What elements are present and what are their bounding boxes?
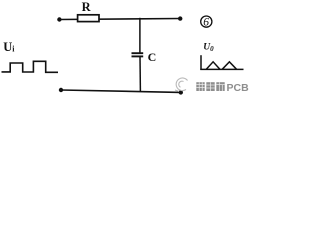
- input square waveform Ui: [2, 61, 59, 72]
- node bottom right terminal dot: [179, 90, 183, 94]
- wire bottom rail: [61, 90, 181, 92]
- circled 6 annotation: [201, 16, 212, 27]
- svg-text:R: R: [82, 0, 92, 14]
- wire capacitor bottom lead: [139, 56, 141, 91]
- capacitor C bottom plate: [132, 55, 144, 57]
- node input terminal dot (top left): [57, 17, 61, 21]
- svg-text:C: C: [148, 50, 157, 64]
- svg-text:PCB: PCB: [227, 82, 250, 94]
- watermark text blobs (CJK): [196, 82, 224, 91]
- capacitor C top plate: [132, 52, 144, 54]
- output waveform axis vertical: [200, 55, 202, 70]
- output waveform baseline: [200, 68, 243, 70]
- svg-text:U0: U0: [203, 43, 214, 54]
- svg-text:Ui: Ui: [3, 40, 15, 54]
- node output terminal dot (top right): [178, 16, 182, 20]
- output triangle wave pulse 2: [222, 62, 236, 69]
- watermark swirl logo: [175, 78, 188, 92]
- wire top rail: [59, 19, 180, 20]
- resistor R: [78, 15, 99, 22]
- svg-text:6: 6: [203, 17, 209, 29]
- wire capacitor top lead: [139, 18, 141, 53]
- node bottom left terminal dot: [59, 88, 63, 92]
- output triangle wave pulse 1: [206, 62, 220, 69]
